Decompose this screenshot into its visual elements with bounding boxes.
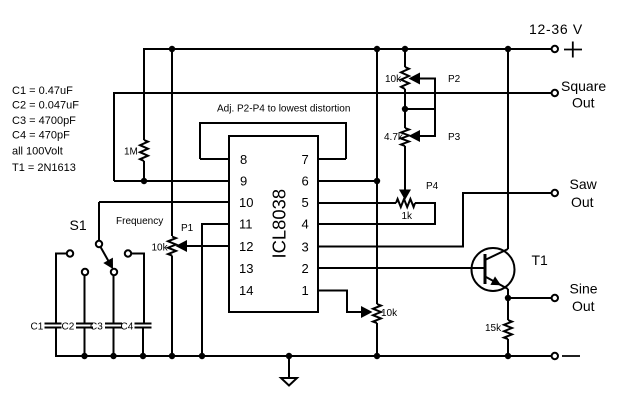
wire C2 bottom lead	[84, 327, 86, 356]
junction dot rail ground	[286, 353, 292, 359]
wire vertical x377 rail to pot	[376, 48, 378, 304]
wire 1M bottom to pin9 line	[143, 161, 145, 181]
potentiometer P4 resistor body	[396, 199, 415, 207]
junction dot top rail x508	[505, 46, 511, 52]
wire pin 2 to T1 base	[318, 267, 485, 269]
svg-text:5: 5	[302, 195, 309, 210]
resistor 15k	[504, 320, 512, 339]
wire wiper node branch	[405, 108, 435, 110]
junction dot top rail x405	[402, 46, 408, 52]
svg-text:Frequency: Frequency	[116, 216, 163, 227]
svg-text:12-36 V: 12-36 V	[529, 21, 583, 37]
wire vertical x405 rail to P2	[404, 48, 406, 67]
svg-text:9: 9	[240, 174, 247, 189]
svg-text:1k: 1k	[402, 211, 414, 222]
svg-text:T1 = 2N1613: T1 = 2N1613	[12, 162, 76, 174]
arrow P4 wiper	[399, 190, 411, 201]
svg-text:4: 4	[302, 217, 309, 232]
svg-text:2: 2	[302, 261, 309, 276]
junction dot rail x508	[505, 353, 511, 359]
wire C2 top lead	[84, 275, 86, 323]
terminal minus	[552, 353, 558, 359]
wire pin 10 line	[99, 201, 229, 203]
svg-text:14: 14	[239, 283, 253, 298]
wire pin 8 stub	[200, 158, 229, 160]
svg-text:S1: S1	[70, 217, 87, 233]
svg-text:1M: 1M	[124, 147, 138, 158]
switch S1 lever	[100, 246, 109, 262]
wire pin 7 stub	[318, 158, 346, 160]
wire pin 12 to P1 wiper	[186, 245, 229, 247]
svg-text:4.7k: 4.7k	[384, 132, 404, 143]
terminal square out	[552, 90, 558, 96]
svg-text:12: 12	[239, 239, 253, 254]
wire loop box pin8-pin7	[200, 123, 346, 159]
wire x377 pot bottom to ground rail	[376, 323, 378, 356]
arrow 10k pin1 wiper	[361, 306, 373, 318]
wire P2/P3 wiper loop	[420, 79, 435, 137]
svg-text:Saw: Saw	[570, 176, 598, 192]
wire left box x114	[113, 92, 115, 181]
svg-text:Out: Out	[572, 298, 595, 314]
svg-text:Out: Out	[572, 94, 595, 110]
capacitor C1 plates	[45, 323, 62, 325]
wire top V+ rail	[144, 48, 551, 50]
capacitor C3 plates	[105, 323, 122, 325]
svg-text:C2 = 0.047uF: C2 = 0.047uF	[12, 100, 79, 112]
wire P4 right loop to pin 4	[318, 203, 435, 224]
wire x99 down to switch common	[98, 202, 100, 240]
wire pin 6 line	[318, 180, 377, 182]
switch S1 contact 3	[111, 269, 117, 275]
terminal sine out	[552, 295, 558, 301]
wire T1 emitter to sine node	[507, 289, 509, 298]
wire C4 top lead	[131, 254, 144, 324]
junction dot rail C4	[140, 353, 146, 359]
wire C4 bottom lead	[142, 327, 144, 356]
transistor T1 emitter diagonal	[486, 277, 508, 289]
svg-text:P3: P3	[448, 132, 461, 143]
junction dot P2/P3 node	[402, 106, 408, 112]
svg-text:Sine: Sine	[570, 281, 598, 297]
terminal V+	[552, 46, 558, 52]
svg-text:7: 7	[302, 152, 309, 167]
arrow P2 wiper	[409, 73, 421, 85]
wire P3 bottom to P4 arrow	[404, 146, 406, 191]
svg-text:3: 3	[302, 239, 309, 254]
svg-text:6: 6	[302, 174, 309, 189]
svg-text:P4: P4	[426, 181, 439, 192]
wire pin 11 to ground rail	[202, 224, 229, 356]
junction dot top rail x377	[374, 46, 380, 52]
junction dot rail C3	[110, 353, 116, 359]
wire C1 bottom lead	[55, 327, 57, 357]
svg-text:P1: P1	[181, 223, 194, 234]
svg-text:13: 13	[239, 261, 253, 276]
wire C1 top lead	[56, 254, 70, 324]
junction dot rail x377	[374, 353, 380, 359]
junction dot 1M to pin9	[141, 178, 147, 184]
svg-text:C1: C1	[31, 322, 44, 333]
transistor T1 circle	[472, 248, 515, 291]
wire P2 bottom to node	[404, 89, 406, 128]
svg-text:T1: T1	[532, 252, 549, 268]
svg-text:Square: Square	[561, 78, 606, 94]
svg-text:11: 11	[239, 217, 253, 232]
svg-text:C4: C4	[121, 322, 134, 333]
svg-text:C2: C2	[62, 322, 75, 333]
switch S1 common contact	[96, 241, 102, 247]
junction dot pin6 x377	[374, 178, 380, 184]
svg-text:10k: 10k	[385, 74, 402, 85]
IC U1 ICL8038 body	[229, 136, 318, 312]
svg-text:C3 = 4700pF: C3 = 4700pF	[12, 115, 76, 127]
svg-text:all 100Volt: all 100Volt	[12, 146, 63, 158]
wire sine out line	[508, 297, 551, 299]
wire pin 3 to saw out	[318, 193, 551, 247]
svg-text:10k: 10k	[152, 243, 169, 254]
arrow P3 wiper	[409, 130, 421, 142]
potentiometer P2 resistor body	[401, 67, 409, 89]
switch S1 contact 2	[82, 269, 88, 275]
wire bottom ground rail	[56, 355, 551, 357]
potentiometer 10k (pin1) resistor body	[373, 304, 381, 323]
capacitor C4 plates	[135, 323, 152, 325]
svg-text:10k: 10k	[381, 308, 398, 319]
junction dot rail C2	[81, 353, 87, 359]
arrow T1 emitter	[490, 276, 501, 285]
ground symbol triangle	[281, 378, 297, 386]
junction dot sine node	[505, 295, 511, 301]
switch S1 contact 4	[125, 250, 131, 256]
svg-text:C3: C3	[90, 322, 103, 333]
wire pin 5 line	[318, 202, 396, 204]
battery minus symbol	[562, 355, 580, 357]
battery plus symbol	[564, 49, 582, 51]
svg-text:ICL8038: ICL8038	[268, 189, 289, 259]
wire x172 P1 bottom to ground rail	[171, 256, 173, 357]
wire vertical x508 rail to T1 collector	[507, 48, 509, 249]
svg-text:P2: P2	[448, 74, 461, 85]
arrow switch S1 lever	[103, 258, 113, 269]
wire ground symbol stub	[288, 356, 290, 378]
wire C3 bottom lead	[113, 327, 115, 356]
wire pin 9 line	[114, 180, 229, 182]
svg-text:1: 1	[302, 283, 309, 298]
svg-text:Out: Out	[571, 194, 594, 210]
switch S1 contact 1	[67, 250, 73, 256]
wire C3 top lead	[113, 275, 115, 323]
capacitor C2 plates	[76, 323, 93, 325]
wire pin 1 to bottom pot wiper	[318, 291, 361, 313]
potentiometer P1 resistor body	[168, 237, 176, 256]
junction dot rail x202	[199, 353, 205, 359]
wire vertical 1M branch from rail	[143, 48, 145, 140]
wire square-out line y93	[114, 92, 551, 94]
svg-text:8: 8	[240, 152, 247, 167]
arrow P1 wiper	[176, 240, 188, 252]
wire sine node to 15k	[507, 298, 509, 320]
wire vertical x172 rail-to-P1	[171, 48, 173, 236]
junction dot rail x172	[169, 353, 175, 359]
transistor T1 collector diagonal	[486, 249, 508, 260]
svg-text:Adj. P2-P4 to lowest distortio: Adj. P2-P4 to lowest distortion	[217, 103, 350, 114]
transistor T1 base wire	[484, 254, 487, 284]
svg-text:15k: 15k	[485, 323, 502, 334]
wire 15k bottom to ground rail	[507, 339, 509, 356]
svg-text:C4 = 470pF: C4 = 470pF	[12, 129, 70, 141]
svg-text:10: 10	[239, 195, 253, 210]
potentiometer P3 resistor body	[401, 128, 409, 146]
svg-text:C1 = 0.47uF: C1 = 0.47uF	[12, 85, 73, 97]
resistor 1M	[140, 140, 148, 161]
junction dot top rail x172	[169, 46, 175, 52]
terminal saw out	[552, 190, 558, 196]
